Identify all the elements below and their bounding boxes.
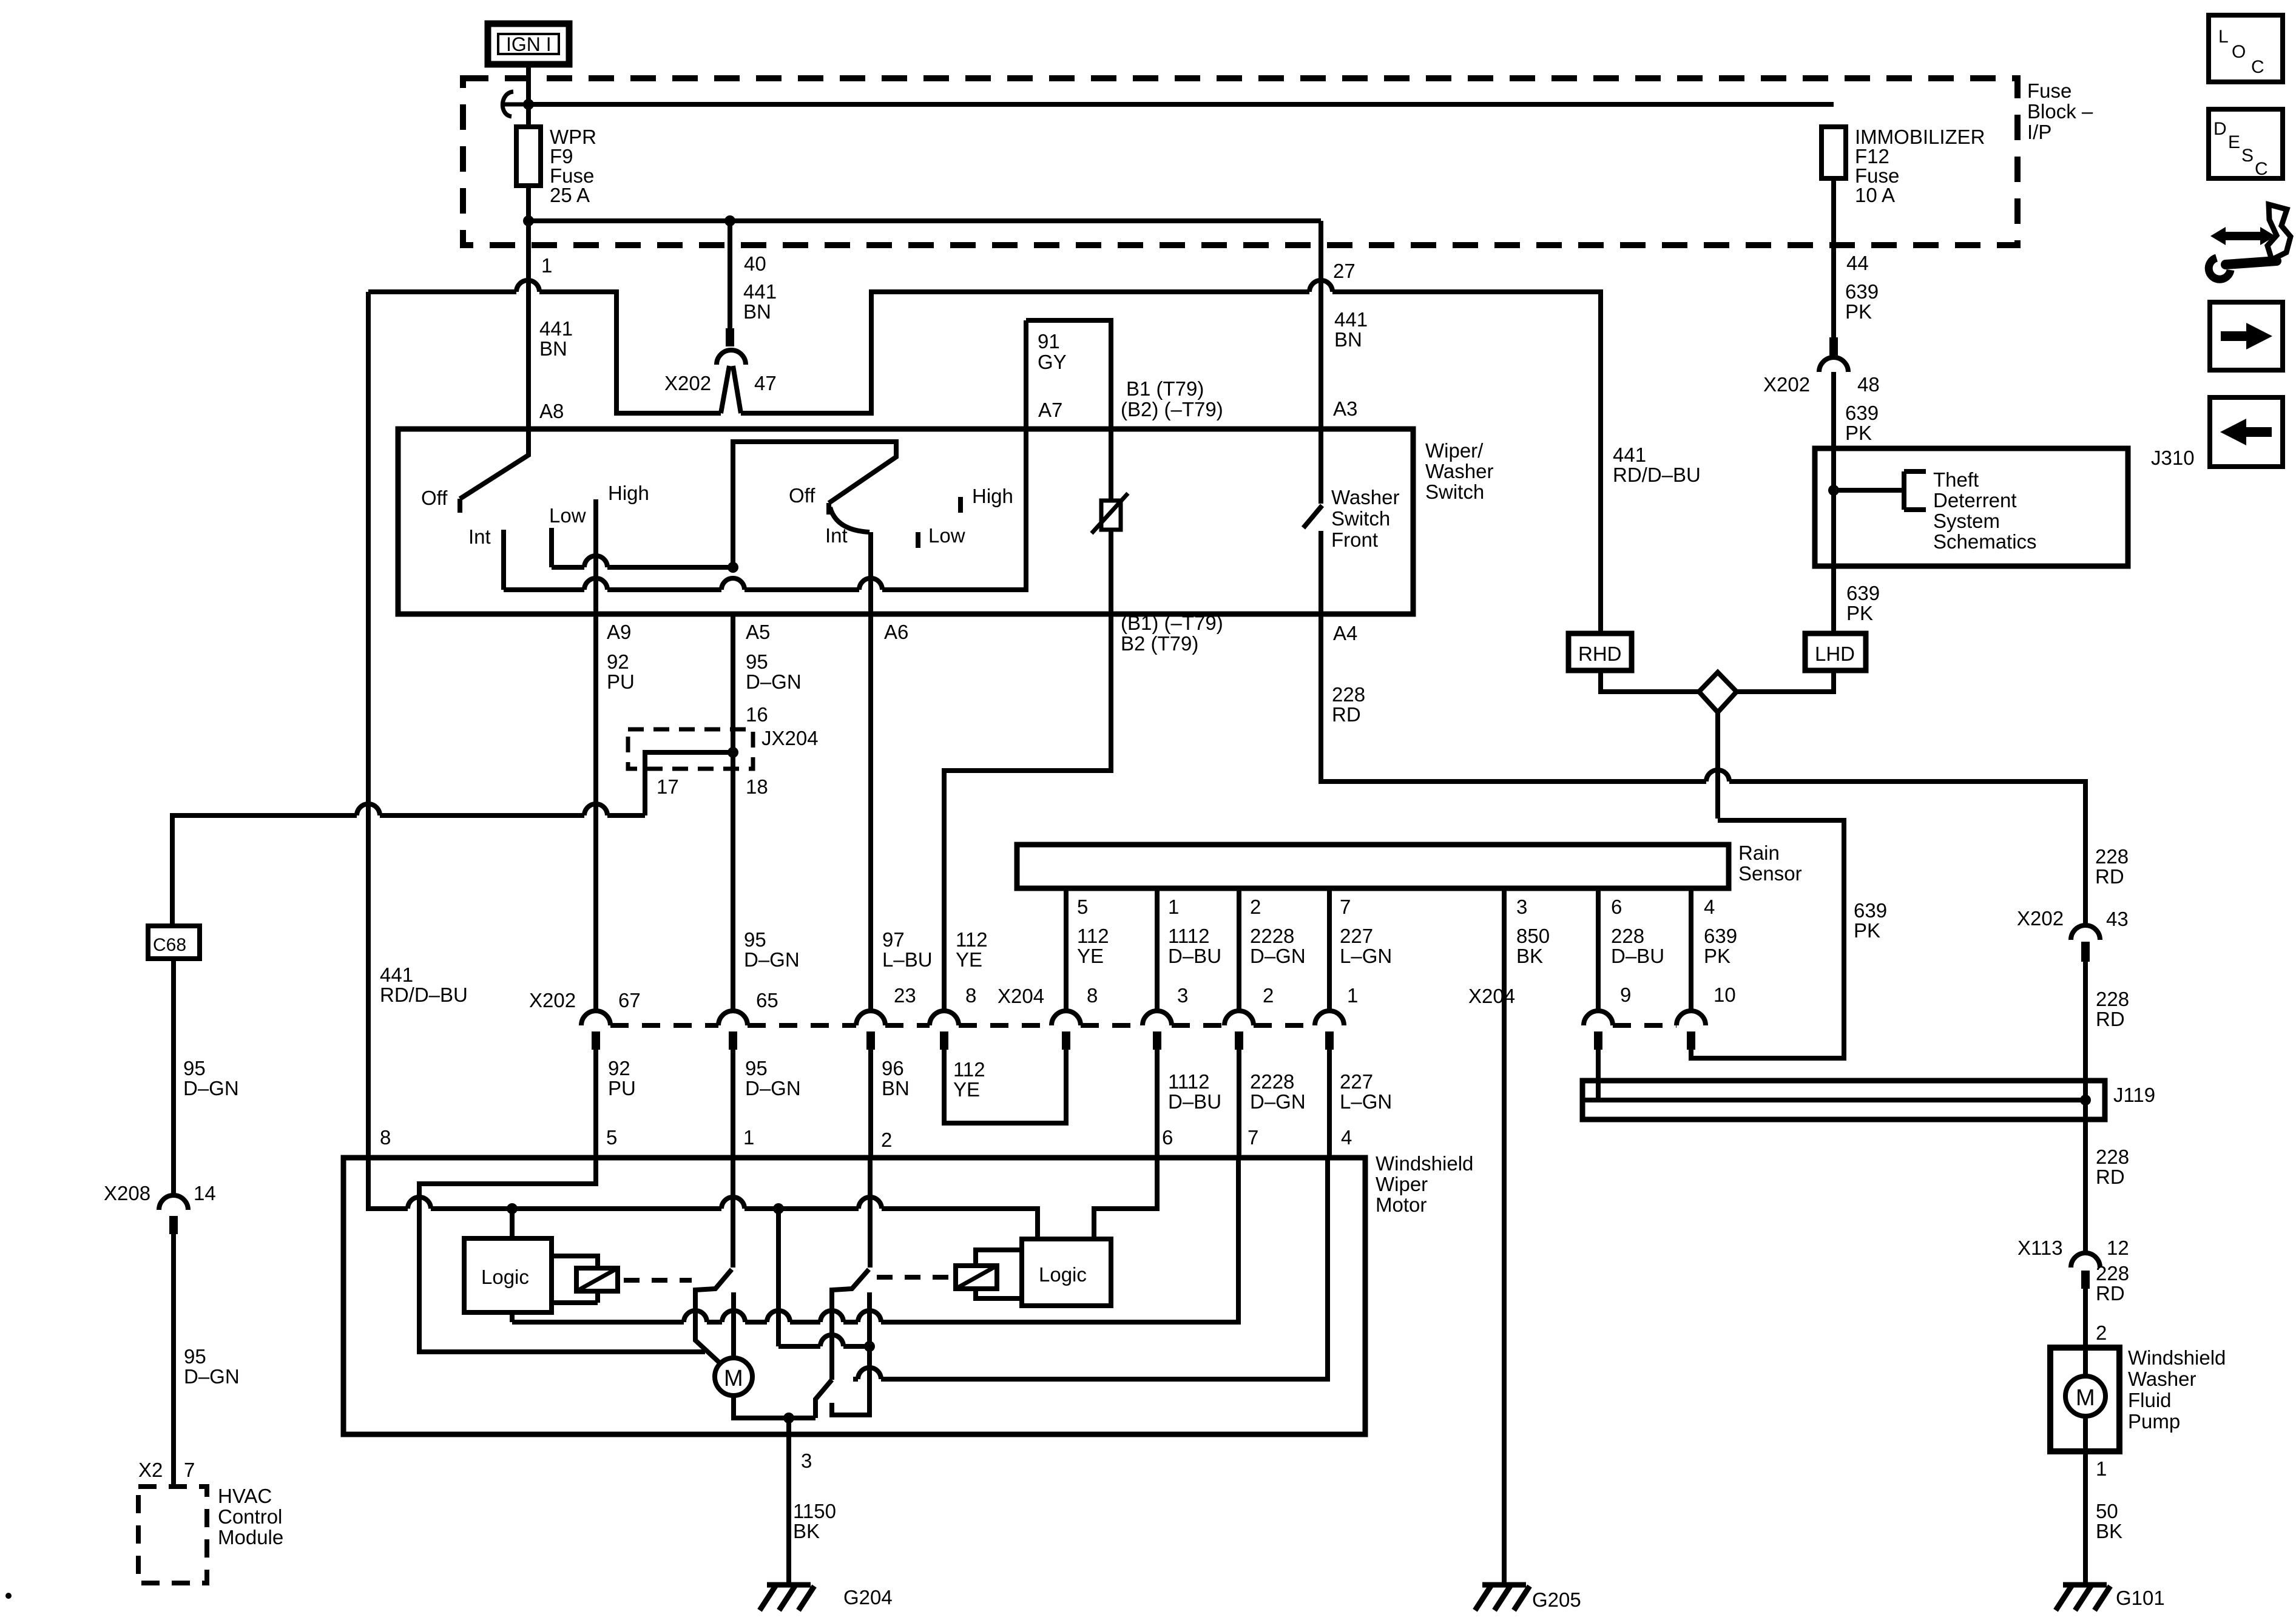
svg-text:LHD: LHD [1815,643,1855,665]
svg-text:95: 95 [184,1345,206,1368]
svg-text:D–GN: D–GN [1250,945,1306,967]
svg-text:A5: A5 [746,621,770,643]
svg-text:228: 228 [1332,683,1365,706]
svg-text:9: 9 [1620,984,1631,1006]
svg-text:1: 1 [1168,896,1179,918]
svg-text:Low: Low [928,524,965,547]
svg-text:6: 6 [1162,1126,1173,1149]
svg-text:X204: X204 [998,985,1044,1007]
svg-text:5: 5 [1077,896,1088,918]
svg-text:G204: G204 [843,1586,893,1609]
svg-text:Washer: Washer [2128,1368,2196,1390]
svg-text:Washer: Washer [1425,460,1493,482]
svg-text:YE: YE [953,1078,980,1101]
svg-text:8: 8 [1087,984,1098,1007]
svg-text:YE: YE [956,948,982,971]
svg-text:95: 95 [745,1057,768,1079]
svg-text:25 A: 25 A [550,184,590,206]
svg-text:2: 2 [1250,896,1261,918]
svg-text:95: 95 [744,928,766,951]
svg-text:Fluid: Fluid [2128,1389,2172,1411]
svg-text:Wiper/: Wiper/ [1425,439,1484,462]
svg-text:C: C [2255,159,2268,179]
svg-text:L–GN: L–GN [1340,945,1392,967]
svg-text:1112: 1112 [1168,1070,1210,1093]
svg-text:D–GN: D–GN [744,948,800,971]
svg-text:PK: PK [1704,945,1730,967]
svg-text:Deterrent: Deterrent [1933,489,2017,511]
svg-text:Control: Control [218,1505,282,1528]
svg-text:E: E [2228,132,2240,152]
svg-text:95: 95 [183,1057,206,1079]
svg-text:(B1) (–T79): (B1) (–T79) [1121,612,1223,634]
svg-text:5: 5 [606,1126,617,1149]
svg-text:1: 1 [743,1126,754,1149]
svg-text:441: 441 [380,964,413,986]
svg-text:850: 850 [1516,925,1550,947]
svg-text:8: 8 [380,1126,391,1149]
svg-text:B2 (T79): B2 (T79) [1121,632,1198,655]
svg-text:O: O [2232,42,2246,62]
svg-text:PU: PU [607,670,635,693]
svg-text:RD/D–BU: RD/D–BU [1613,464,1701,486]
svg-text:228: 228 [1611,925,1644,947]
svg-text:97: 97 [882,928,905,951]
svg-text:A3: A3 [1333,397,1357,420]
svg-text:92: 92 [608,1057,630,1079]
svg-text:40: 40 [744,252,766,275]
svg-text:D: D [2213,119,2227,139]
svg-text:D–BU: D–BU [1168,945,1221,967]
svg-text:D–GN: D–GN [184,1365,240,1388]
svg-text:X202: X202 [664,372,711,394]
svg-text:Washer: Washer [1331,486,1399,508]
svg-text:PU: PU [608,1077,636,1099]
svg-text:2228: 2228 [1250,925,1294,947]
svg-text:Wiper: Wiper [1376,1173,1428,1195]
svg-text:4: 4 [1341,1126,1352,1149]
svg-text:10: 10 [1714,984,1736,1006]
svg-text:BN: BN [743,300,771,323]
svg-text:J310: J310 [2151,447,2195,469]
svg-text:(B2) (–T79): (B2) (–T79) [1121,398,1223,420]
svg-text:BN: BN [539,337,567,360]
svg-text:441: 441 [539,317,573,340]
svg-text:1: 1 [541,254,552,277]
svg-text:RD: RD [2096,1282,2125,1305]
svg-text:M: M [2076,1385,2095,1411]
svg-text:X202: X202 [2017,907,2064,930]
svg-text:92: 92 [607,650,629,673]
svg-text:Module: Module [218,1526,283,1548]
svg-text:X202: X202 [529,989,576,1011]
svg-text:A4: A4 [1333,622,1357,644]
svg-text:7: 7 [184,1459,195,1481]
svg-text:GY: GY [1038,351,1067,373]
svg-text:C68: C68 [153,935,186,955]
svg-text:X202: X202 [1763,373,1810,396]
svg-text:BK: BK [2096,1520,2122,1542]
svg-text:D–BU: D–BU [1611,945,1664,967]
svg-text:228: 228 [2096,1146,2129,1168]
svg-text:JX204: JX204 [761,727,819,749]
svg-text:50: 50 [2096,1500,2118,1522]
svg-text:441: 441 [1613,444,1646,466]
svg-text:D–GN: D–GN [745,1077,801,1099]
svg-text:PK: PK [1854,919,1880,942]
svg-text:91: 91 [1038,330,1060,353]
svg-text:IGN I: IGN I [506,33,552,55]
svg-text:Sensor: Sensor [1738,862,1802,885]
svg-text:B1 (T79): B1 (T79) [1126,377,1204,400]
svg-text:12: 12 [2107,1237,2129,1259]
svg-text:PK: PK [1845,300,1872,323]
svg-text:639: 639 [1854,899,1887,922]
svg-text:8: 8 [965,984,976,1007]
svg-text:639: 639 [1845,402,1879,424]
svg-text:G205: G205 [1532,1588,1581,1611]
svg-text:Front: Front [1331,528,1378,551]
svg-text:3: 3 [801,1450,812,1472]
svg-text:BK: BK [1516,945,1543,967]
svg-text:Rain: Rain [1738,842,1780,864]
svg-text:Logic: Logic [1039,1263,1087,1286]
svg-text:I/P: I/P [2027,121,2051,143]
svg-text:Off: Off [789,484,815,507]
svg-text:96: 96 [882,1057,904,1079]
svg-text:4: 4 [1704,896,1715,918]
svg-text:PK: PK [1845,422,1872,444]
svg-text:J119: J119 [2113,1084,2155,1106]
svg-text:Switch: Switch [1425,481,1484,503]
svg-text:D–BU: D–BU [1168,1090,1221,1113]
svg-text:L–GN: L–GN [1340,1090,1392,1113]
svg-text:3: 3 [1516,896,1527,918]
svg-text:Windshield: Windshield [2128,1346,2226,1369]
svg-text:D–GN: D–GN [746,670,802,693]
svg-text:67: 67 [618,989,641,1011]
svg-text:A9: A9 [607,621,631,643]
svg-text:2: 2 [2096,1322,2107,1344]
svg-text:C: C [2251,57,2264,77]
svg-text:14: 14 [194,1182,216,1204]
svg-text:G101: G101 [2116,1587,2165,1609]
svg-text:1: 1 [2096,1457,2107,1480]
svg-text:112: 112 [956,928,988,951]
svg-text:A6: A6 [884,621,908,643]
svg-text:1: 1 [1347,984,1358,1007]
svg-text:18: 18 [746,775,768,798]
svg-text:112: 112 [1077,925,1109,947]
svg-text:1150: 1150 [793,1500,836,1522]
svg-text:X208: X208 [104,1182,150,1204]
svg-text:Int: Int [825,524,848,547]
svg-text:RD: RD [2095,865,2124,888]
svg-text:112: 112 [953,1058,985,1081]
svg-text:3: 3 [1177,984,1188,1007]
svg-text:7: 7 [1248,1126,1258,1149]
svg-text:95: 95 [746,650,768,673]
svg-text:23: 23 [894,984,916,1007]
svg-text:27: 27 [1333,260,1356,282]
svg-text:17: 17 [657,775,679,798]
svg-text:D–GN: D–GN [183,1077,239,1099]
svg-text:D–GN: D–GN [1250,1090,1306,1113]
svg-text:X2: X2 [138,1459,163,1481]
svg-text:2228: 2228 [1250,1070,1294,1093]
svg-text:A7: A7 [1038,399,1062,421]
svg-text:HVAC: HVAC [218,1485,272,1507]
svg-text:48: 48 [1857,373,1880,396]
svg-text:L–BU: L–BU [882,948,933,971]
svg-text:441: 441 [743,280,777,303]
svg-text:228: 228 [2096,988,2129,1010]
svg-text:Motor: Motor [1376,1193,1427,1216]
svg-text:Windshield: Windshield [1376,1152,1473,1175]
svg-text:2: 2 [881,1129,892,1151]
svg-text:639: 639 [1845,280,1879,303]
svg-text:Block –: Block – [2027,100,2093,123]
svg-text:Low: Low [549,504,586,527]
svg-text:High: High [972,485,1013,507]
svg-text:A8: A8 [539,400,564,422]
svg-text:RD: RD [2096,1166,2125,1188]
svg-text:227: 227 [1340,1070,1373,1093]
svg-text:PK: PK [1846,602,1873,624]
svg-text:228: 228 [2096,1262,2129,1284]
svg-text:44: 44 [1846,252,1869,274]
svg-text:System: System [1933,510,2000,532]
svg-text:2: 2 [1263,984,1274,1007]
svg-text:RD/D–BU: RD/D–BU [380,984,468,1006]
svg-text:6: 6 [1611,896,1622,918]
svg-text:441: 441 [1334,308,1368,331]
svg-text:RD: RD [1332,703,1361,726]
svg-text:639: 639 [1704,925,1737,947]
svg-text:YE: YE [1077,945,1104,967]
svg-text:BN: BN [882,1077,910,1099]
svg-text:BN: BN [1334,328,1362,351]
svg-text:Int: Int [468,525,491,548]
svg-text:BK: BK [793,1520,820,1542]
svg-text:X204: X204 [1468,985,1515,1007]
svg-text:227: 227 [1340,925,1373,947]
svg-text:16: 16 [746,703,768,726]
svg-text:S: S [2241,146,2254,166]
svg-text:10 A: 10 A [1855,184,1895,206]
svg-text:RHD: RHD [1578,643,1622,665]
svg-text:Theft: Theft [1933,468,1979,491]
svg-text:Switch: Switch [1331,507,1390,530]
svg-text:47: 47 [754,372,777,394]
svg-text:1112: 1112 [1168,925,1210,947]
svg-text:Pump: Pump [2128,1410,2180,1433]
svg-text:L: L [2218,27,2229,47]
svg-text:228: 228 [2095,845,2129,868]
svg-text:43: 43 [2106,908,2129,930]
svg-text:Fuse: Fuse [2027,79,2071,102]
svg-text:X113: X113 [2017,1237,2063,1259]
svg-text:7: 7 [1340,896,1351,918]
svg-text:RD: RD [2096,1008,2125,1030]
svg-text:M: M [724,1366,743,1391]
svg-text:639: 639 [1846,582,1880,604]
svg-text:High: High [608,482,649,504]
svg-text:Logic: Logic [481,1266,529,1288]
svg-text:Schematics: Schematics [1933,530,2037,553]
svg-text:Off: Off [421,487,448,509]
svg-text:65: 65 [756,989,778,1011]
